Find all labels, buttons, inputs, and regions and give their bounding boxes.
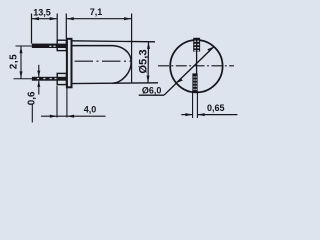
top glass bead bbox=[57, 40, 66, 50]
body axis centerline bbox=[75, 60, 132, 62]
0,65 dimension line left part bbox=[181, 114, 192, 116]
dimension 7,1 arrow left bbox=[67, 17, 74, 20]
extension line at flange left (4,0) bbox=[66, 88, 68, 118]
dimension 0,6 lower segment bbox=[38, 81, 40, 95]
dimension 7,1 line bbox=[66, 18, 131, 20]
dimension 2,5 arrow down bbox=[20, 71, 23, 78]
svg-text:Ø6,0: Ø6,0 bbox=[142, 85, 162, 95]
svg-text:4,0: 4,0 bbox=[84, 104, 97, 114]
extension line at bead left (13,5 right) bbox=[56, 14, 58, 40]
Ø6,0 leader bbox=[164, 83, 176, 95]
bottom lead bbox=[32, 77, 67, 81]
body bottom outline + diameter extension line bbox=[72, 82, 158, 85]
dimension Ø5,3 arrow up bbox=[147, 42, 150, 49]
top lead centerline tail bbox=[16, 45, 32, 47]
svg-text:13,5: 13,5 bbox=[33, 8, 51, 18]
svg-text:Ø5,3: Ø5,3 bbox=[138, 49, 150, 73]
0,65 extension line left bbox=[192, 91, 194, 118]
body top outline + diameter extension line bbox=[72, 41, 155, 42]
dimension 13,5 line bbox=[32, 18, 58, 20]
bottom glass bead bbox=[57, 73, 66, 84]
svg-text:0,65: 0,65 bbox=[207, 103, 225, 113]
top lead end-on hatched bbox=[193, 38, 200, 52]
dimension 4,0 arrow pointing left bbox=[67, 115, 74, 118]
dimension 4,0 arrow pointing right bbox=[50, 115, 57, 118]
extension line at lead tip (13,5 left) bbox=[31, 14, 33, 44]
top lead bbox=[32, 44, 67, 48]
dimension Ø5,3 line bbox=[147, 42, 150, 83]
dimension 7,1 arrow right bbox=[124, 17, 131, 20]
bottom lead end-on hatched bbox=[192, 73, 197, 92]
extension line at lead tip (4,0) bbox=[31, 105, 33, 123]
flange bbox=[67, 39, 72, 88]
svg-text:0,6: 0,6 bbox=[26, 91, 37, 105]
svg-text:7,1: 7,1 bbox=[90, 7, 103, 17]
extension line at flange left (7,1 left) bbox=[65, 14, 67, 39]
0,65 arrow pointing left bbox=[197, 113, 204, 116]
dimension 4,0 line bbox=[41, 115, 106, 117]
dimension 0,6 arrow up bbox=[37, 81, 40, 87]
bottom lead centerline tail bbox=[14, 78, 32, 80]
Ø6,0 diameter diagonal bbox=[176, 47, 214, 84]
end view horizontal centerline bbox=[158, 65, 234, 67]
end view circle bbox=[170, 40, 222, 92]
0,65 dimension line right part bbox=[197, 114, 237, 116]
dimension 0,6 arrow down bbox=[37, 71, 40, 77]
dimension 2,5 arrow up bbox=[20, 46, 23, 53]
body upper edge bbox=[72, 45, 113, 47]
dimension 2,5 line bbox=[20, 46, 22, 79]
Ø6,0 diagonal arrow lower-left bbox=[176, 79, 183, 84]
dimension Ø5,3 arrow down bbox=[147, 76, 150, 83]
dimension 13,5 arrow left bbox=[32, 17, 39, 20]
0,65 extension line right bbox=[196, 91, 198, 118]
svg-text:2,5: 2,5 bbox=[8, 54, 19, 70]
extension line at body right end (7,1 right) bbox=[131, 14, 133, 84]
Ø6,0 leader underline bbox=[139, 94, 164, 96]
dimension 13,5 arrow right bbox=[50, 17, 57, 20]
0,65 arrow pointing right bbox=[185, 113, 192, 116]
end view vertical line bbox=[196, 38, 198, 92]
Ø6,0 diagonal arrow upper-right bbox=[207, 47, 214, 52]
dimension 0,6 upper segment bbox=[38, 65, 40, 77]
extension line at bead left (4,0) bbox=[56, 86, 58, 118]
body dome bbox=[113, 46, 132, 84]
